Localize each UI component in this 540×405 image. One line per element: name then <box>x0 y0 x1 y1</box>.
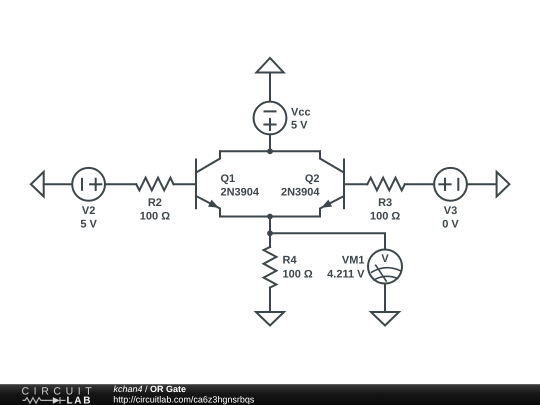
port OUT right triangle <box>497 172 510 197</box>
label VM1 value <box>327 255 365 281</box>
junction node top rail <box>267 148 273 154</box>
svg-text:R4: R4 <box>283 255 298 267</box>
svg-text:2N3904: 2N3904 <box>281 187 320 199</box>
svg-text:V: V <box>381 253 389 265</box>
svg-text:kchan4 / OR Gate: kchan4 / OR Gate <box>114 384 187 394</box>
resistor R3 <box>367 178 405 191</box>
wire top rail <box>220 150 320 152</box>
svg-text:4.211 V: 4.211 V <box>327 269 365 281</box>
junction node lower <box>267 230 273 236</box>
wire bottom rail <box>220 216 320 218</box>
junction node bottom rail <box>267 214 273 220</box>
label Q1 value <box>221 173 260 199</box>
wire port to V2 <box>44 183 72 185</box>
svg-text:5 V: 5 V <box>80 219 97 231</box>
svg-text:V3: V3 <box>444 205 457 217</box>
wire lower node to R4 <box>269 233 271 247</box>
voltmeter VM1 V letter <box>381 253 389 265</box>
label Q2 value <box>281 173 320 199</box>
footer bar <box>0 384 540 405</box>
label V3 value <box>442 205 459 231</box>
ground below R4 <box>256 312 284 326</box>
wire lower node to VM1 <box>270 233 385 249</box>
svg-text:Q2: Q2 <box>305 173 320 185</box>
voltage source V3 <box>434 168 467 201</box>
voltage source V2 <box>72 168 105 201</box>
wire V3 to port OUT <box>467 183 497 185</box>
footer logo resistor zigzag and diode <box>23 397 66 404</box>
ground below VM1 <box>371 312 399 326</box>
svg-text:http://circuitlab.com/ca6z3hgn: http://circuitlab.com/ca6z3hgnsrbqs <box>113 394 255 404</box>
footer logo LAB text <box>67 396 93 405</box>
wire bottom rail to lower node <box>269 217 271 234</box>
label R4 value <box>283 255 313 281</box>
label V2 value <box>80 205 97 231</box>
label R3 value <box>370 197 400 223</box>
svg-text:100 Ω: 100 Ω <box>283 269 313 281</box>
wire R4 to ground <box>269 288 271 312</box>
svg-text:100 Ω: 100 Ω <box>370 211 400 223</box>
port VCC up triangle <box>256 58 283 73</box>
svg-text:Q1: Q1 <box>221 173 236 185</box>
label R2 value <box>140 197 170 223</box>
wire Vcc source to top rail <box>269 134 271 151</box>
svg-text:VM1: VM1 <box>342 255 365 267</box>
svg-text:Vcc: Vcc <box>291 107 311 119</box>
svg-text:V2: V2 <box>82 205 95 217</box>
resistor R2 <box>136 178 173 191</box>
transistor Q2 <box>320 151 344 216</box>
wire R2 to Q1 base <box>174 183 197 185</box>
port IN left triangle <box>31 172 44 197</box>
wire port to Vcc source <box>269 73 271 102</box>
voltage source Vcc <box>254 102 287 135</box>
footer logo CIRCUIT text <box>22 386 97 398</box>
label Vcc value <box>291 107 311 132</box>
footer title text <box>113 384 255 404</box>
svg-text:R3: R3 <box>378 197 392 209</box>
wire Q2 base to R3 <box>344 183 367 185</box>
svg-text:2N3904: 2N3904 <box>221 187 260 199</box>
svg-text:100 Ω: 100 Ω <box>140 211 170 223</box>
wire VM1 to ground <box>384 284 386 313</box>
svg-text:R2: R2 <box>148 197 162 209</box>
wire V2 to R2 <box>105 183 136 185</box>
svg-text:0 V: 0 V <box>442 219 459 231</box>
transistor Q1 <box>196 151 220 216</box>
svg-text:LAB: LAB <box>67 396 93 405</box>
wire R3 to V3 <box>405 183 434 185</box>
resistor R4 <box>264 247 277 288</box>
svg-text:5 V: 5 V <box>291 120 308 132</box>
voltmeter VM1 <box>368 250 402 284</box>
